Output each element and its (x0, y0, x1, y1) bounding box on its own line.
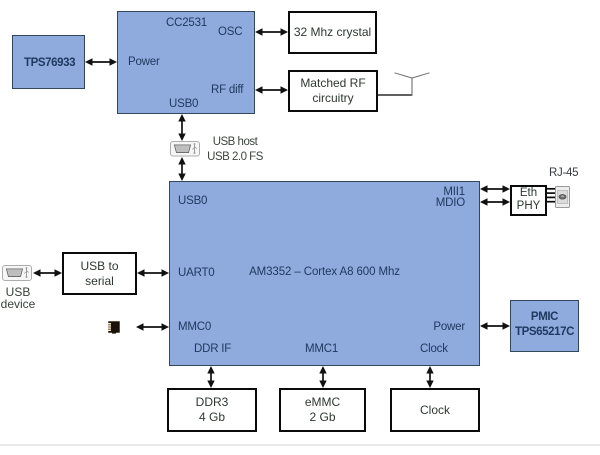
wire arrow CC2531 USB0 down to usb host icon (178, 114, 185, 141)
wire arrow USB to serial to UART0 (137, 269, 169, 276)
wire arrow Power to PMIC (480, 322, 510, 329)
label MDIO (436, 197, 465, 210)
block 32 Mhz crystal (288, 11, 377, 54)
block Eth PHY (510, 185, 547, 216)
wire arrow microSD to MMC0 (136, 323, 169, 330)
label RJ-45 (549, 167, 578, 179)
block Clock (390, 388, 480, 432)
label UART0 (178, 267, 215, 280)
block eMMC 2 Gb (279, 388, 366, 432)
block Matched RF circuitry (288, 70, 378, 112)
microSD card icon (108, 322, 120, 334)
wire arrow MMC1 to eMMC (319, 366, 326, 388)
label Power (CC2531) (128, 56, 160, 69)
block PMIC TPS65217C (510, 300, 579, 352)
wire arrow DDR IF to DDR3 (207, 366, 214, 388)
label AM3352 - Cortex A8 600 Mhz (169, 266, 480, 279)
label MII1 (443, 186, 465, 199)
faint page band at bottom (0, 444, 600, 447)
label CC2531 (166, 17, 207, 30)
label OSC (218, 26, 242, 39)
pin wires Eth PHY to RJ-45 (547, 189, 556, 202)
label MMC1 (305, 343, 338, 356)
usb device connector icon (3, 266, 32, 281)
label DDR IF (194, 343, 231, 356)
label TPS76933 (24, 57, 75, 70)
label Power (AM3352) (433, 321, 465, 334)
antenna (378, 73, 430, 96)
wire arrow MDIO to Eth PHY (480, 198, 510, 205)
block CC2531 (117, 11, 255, 114)
label RF diff (211, 84, 243, 97)
block TPS76933 (12, 35, 85, 89)
label PMIC TPS65217C (510, 310, 579, 340)
wire arrow TPS76933 to CC2531 (85, 58, 117, 65)
label MMC0 (178, 321, 211, 334)
label Clock (AM3352) (420, 343, 448, 356)
block AM3352 (169, 181, 480, 366)
block USB to serial (62, 252, 137, 295)
RJ-45 connector icon (556, 187, 570, 208)
wire arrow MII1 to Eth PHY (480, 185, 510, 192)
wire arrow usb host icon down to AM3352 (178, 157, 185, 181)
label USB0 (AM3352) (178, 195, 207, 208)
wire arrow OSC to 32 Mhz crystal (255, 28, 288, 35)
block DDR3 4 Gb (167, 388, 257, 432)
label USB host / USB 2.0 FS (205, 135, 265, 166)
label USB0 (CC2531) (169, 98, 198, 111)
wire arrow RF diff to Matched RF (255, 86, 288, 93)
label USB device (0, 286, 43, 311)
wire arrow usb device to USB to serial (33, 269, 62, 276)
usb host connector icon (171, 142, 200, 157)
wire arrow Clock to Clock box (426, 366, 433, 388)
